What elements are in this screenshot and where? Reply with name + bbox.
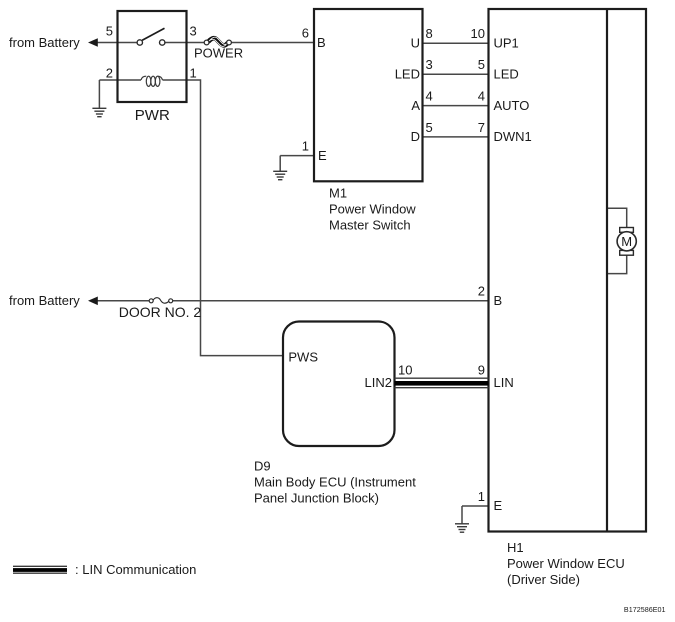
svg-text:4: 4 — [426, 89, 433, 104]
svg-text:Main Body ECU (Instrument: Main Body ECU (Instrument — [254, 475, 416, 490]
svg-text:AUTO: AUTO — [494, 98, 530, 113]
svg-text:POWER: POWER — [194, 46, 243, 61]
svg-text:2: 2 — [478, 284, 485, 299]
svg-text:10: 10 — [398, 363, 412, 378]
svg-text:U: U — [411, 35, 420, 50]
svg-text:2: 2 — [106, 66, 113, 81]
svg-text:3: 3 — [426, 57, 433, 72]
svg-text:Power Window: Power Window — [329, 202, 416, 217]
svg-text:E: E — [494, 498, 503, 513]
svg-text:Master Switch: Master Switch — [329, 218, 411, 233]
svg-text:1: 1 — [190, 66, 197, 81]
svg-text:A: A — [411, 98, 420, 113]
svg-text:from Battery: from Battery — [9, 293, 80, 308]
svg-text:DWN1: DWN1 — [494, 129, 532, 144]
svg-text:from Battery: from Battery — [9, 35, 80, 50]
svg-text:LED: LED — [395, 67, 420, 82]
svg-text:LIN: LIN — [494, 375, 514, 390]
svg-text:PWS: PWS — [288, 349, 318, 364]
svg-text:10: 10 — [471, 26, 485, 41]
svg-text:Panel Junction Block): Panel Junction Block) — [254, 491, 379, 506]
svg-text:5: 5 — [478, 57, 485, 72]
svg-text:E: E — [318, 148, 327, 163]
svg-text:1: 1 — [302, 139, 309, 154]
svg-text:D: D — [411, 129, 420, 144]
svg-text:DOOR NO. 2: DOOR NO. 2 — [119, 304, 202, 320]
svg-text:H1: H1 — [507, 540, 524, 555]
svg-text:B: B — [494, 293, 503, 308]
svg-text:LIN2: LIN2 — [365, 375, 392, 390]
svg-text:UP1: UP1 — [494, 35, 519, 50]
svg-text:LED: LED — [494, 67, 519, 82]
svg-text:5: 5 — [106, 24, 113, 39]
svg-text:D9: D9 — [254, 459, 271, 474]
svg-text:5: 5 — [426, 120, 433, 135]
svg-text:(Driver Side): (Driver Side) — [507, 572, 580, 587]
svg-text:1: 1 — [478, 489, 485, 504]
svg-text:9: 9 — [478, 363, 485, 378]
svg-text:: LIN Communication: : LIN Communication — [75, 562, 196, 577]
svg-text:M1: M1 — [329, 186, 347, 201]
svg-text:Power Window ECU: Power Window ECU — [507, 556, 625, 571]
svg-text:4: 4 — [478, 89, 485, 104]
svg-text:7: 7 — [478, 120, 485, 135]
svg-text:8: 8 — [426, 26, 433, 41]
svg-text:B172586E01: B172586E01 — [624, 605, 666, 614]
svg-text:6: 6 — [302, 26, 309, 41]
svg-text:3: 3 — [190, 24, 197, 39]
svg-text:M: M — [621, 234, 632, 249]
svg-text:PWR: PWR — [135, 107, 170, 124]
svg-text:B: B — [317, 35, 326, 50]
